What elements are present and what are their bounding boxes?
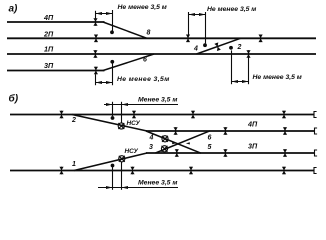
- svg-text:Менее 3,5 м: Менее 3,5 м: [138, 179, 177, 186]
- insulated joint 3П b: [223, 149, 227, 157]
- svg-text:3П: 3П: [44, 61, 54, 70]
- svg-text:Не менее 3,5 м: Не менее 3,5 м: [118, 4, 167, 11]
- dimension top-left: extension line left: [95, 11, 97, 19]
- turnout 1 diagonal: [74, 153, 147, 171]
- insulated joint 4П c: [283, 127, 287, 135]
- svg-text:4П: 4П: [43, 13, 54, 22]
- track 3П end bracket: [315, 150, 318, 156]
- insulated joint on 4П: [93, 18, 97, 26]
- svg-text:а): а): [9, 4, 19, 15]
- signal on crossover A: [162, 136, 168, 142]
- dimension б bottom: left arrow: [106, 186, 113, 189]
- insulated joint T1 c: [191, 111, 195, 119]
- insulated joint T1 a: [59, 111, 63, 119]
- svg-text:НСУ: НСУ: [125, 148, 139, 155]
- insulated joint T1 d: [282, 111, 286, 119]
- turnout 8 diagonal: [103, 22, 147, 38]
- dimension bottom-right: extension line left: [231, 50, 233, 84]
- insulated joint 3П c: [283, 149, 287, 157]
- dimension б top: extension line left: [112, 102, 114, 117]
- dimension б bottom: extension line left: [112, 167, 114, 190]
- track 3П: [7, 70, 105, 72]
- track 4П: [7, 21, 105, 23]
- svg-text:4: 4: [193, 46, 198, 53]
- crossover diagonal B: [156, 131, 211, 153]
- track T1 upper: [10, 114, 314, 116]
- insulated joint T4 d: [282, 167, 286, 175]
- track T4 end bracket: [314, 168, 317, 174]
- dimension bottom-left: left arrow: [96, 81, 103, 84]
- svg-text:5: 5: [208, 144, 212, 151]
- frog arrow right: [186, 142, 190, 144]
- dimension bottom-left: line: [96, 82, 113, 84]
- signal НСУ top: [118, 123, 124, 129]
- dimension bottom-right: right arrow: [242, 80, 249, 83]
- crossover diagonal A: [146, 131, 201, 153]
- dimension б bottom: extension line right: [121, 162, 123, 190]
- crossover 4-2 diagonal: [197, 38, 241, 54]
- dimension bottom-right: line: [232, 81, 249, 83]
- insulated joint on 2П mid: [186, 35, 190, 43]
- svg-text:Не менее 3,5 м: Не менее 3,5 м: [207, 6, 256, 13]
- dimension mid-top: right arrow: [199, 13, 206, 16]
- svg-text:3: 3: [149, 144, 153, 151]
- limit post dot б bottom: [111, 164, 115, 168]
- limit post dot turnout 6: [110, 60, 114, 64]
- track T1 end bracket: [314, 112, 317, 118]
- track 4П lower: [146, 130, 315, 132]
- dimension mid-top: extension line right: [205, 12, 207, 43]
- dimension mid-top: line: [189, 14, 206, 16]
- dimension top-left: extension line right: [112, 10, 114, 31]
- dimension top-left: right arrow: [106, 12, 113, 15]
- insulated joint on 3П: [94, 67, 98, 75]
- svg-text:6: 6: [208, 135, 212, 142]
- dimension б bottom: line: [98, 187, 178, 189]
- svg-text:Не менее 3,5 м: Не менее 3,5 м: [253, 74, 302, 81]
- insulated joint 4П b: [223, 127, 227, 135]
- limit post dot б top: [111, 116, 115, 120]
- turnout 6 diagonal: [103, 54, 154, 71]
- dimension б top: extension line right: [121, 102, 123, 123]
- svg-text:Менее 3,5 м: Менее 3,5 м: [138, 96, 177, 103]
- turnout 2 diagonal: [72, 115, 147, 132]
- track 4П end bracket: [315, 128, 318, 134]
- insulated joint on 1П right: [246, 50, 250, 58]
- insulated joint T4 b: [130, 167, 134, 175]
- insulated joint 4П mid: [174, 127, 178, 135]
- limit post dot lower crossover: [229, 46, 233, 50]
- dimension bottom-left: right arrow: [106, 81, 113, 84]
- insulated joint 3П a: [175, 149, 179, 157]
- svg-text:1П: 1П: [44, 45, 54, 54]
- svg-text:НСУ: НСУ: [127, 120, 141, 127]
- dimension б top: line: [104, 104, 178, 106]
- track T4 bottom: [10, 170, 314, 172]
- insulated joint on crossover diagonal: [214, 42, 221, 51]
- track 1П: [7, 53, 316, 55]
- dimension top-left: line: [96, 13, 113, 15]
- svg-text:1: 1: [72, 161, 76, 168]
- signal НСУ bottom: [119, 156, 125, 162]
- insulated joint T4 a: [59, 167, 63, 175]
- svg-text:Не менее 3,5м: Не менее 3,5м: [117, 76, 170, 83]
- limit post dot turnout 8: [110, 30, 114, 34]
- dimension bottom-left: extension line right: [112, 63, 114, 85]
- dimension bottom-left: extension line left: [95, 74, 97, 85]
- svg-text:4П: 4П: [247, 120, 258, 129]
- insulated joint on 2П left: [94, 35, 98, 43]
- insulated joint T1 b: [132, 111, 136, 119]
- limit post dot upper crossover: [203, 43, 207, 47]
- frog arrow left: [172, 142, 176, 144]
- dimension mid-top: extension line left: [188, 12, 190, 35]
- svg-text:3П: 3П: [248, 142, 258, 151]
- insulated joint T4 c: [189, 167, 193, 175]
- signal on crossover B: [161, 146, 167, 152]
- dimension mid-top: left arrow: [189, 13, 196, 16]
- svg-text:б): б): [9, 93, 19, 105]
- svg-text:2П: 2П: [43, 29, 54, 38]
- dimension б top: left arrow: [106, 103, 113, 106]
- dimension б top: right arrow: [122, 103, 129, 106]
- svg-text:8: 8: [147, 30, 151, 37]
- svg-text:4: 4: [149, 135, 154, 142]
- dimension top-left: left arrow: [96, 12, 103, 15]
- svg-text:2: 2: [71, 117, 76, 124]
- insulated joint on 1П left: [93, 50, 97, 58]
- track 2П: [7, 37, 316, 39]
- track 3П lower: [146, 152, 315, 154]
- svg-text:6: 6: [143, 57, 147, 64]
- svg-text:2: 2: [237, 44, 242, 51]
- dimension bottom-right: extension line right: [248, 57, 250, 84]
- insulated joint on 2П right: [259, 35, 263, 43]
- dimension bottom-right: left arrow: [232, 80, 239, 83]
- dimension б bottom: right arrow: [122, 186, 129, 189]
